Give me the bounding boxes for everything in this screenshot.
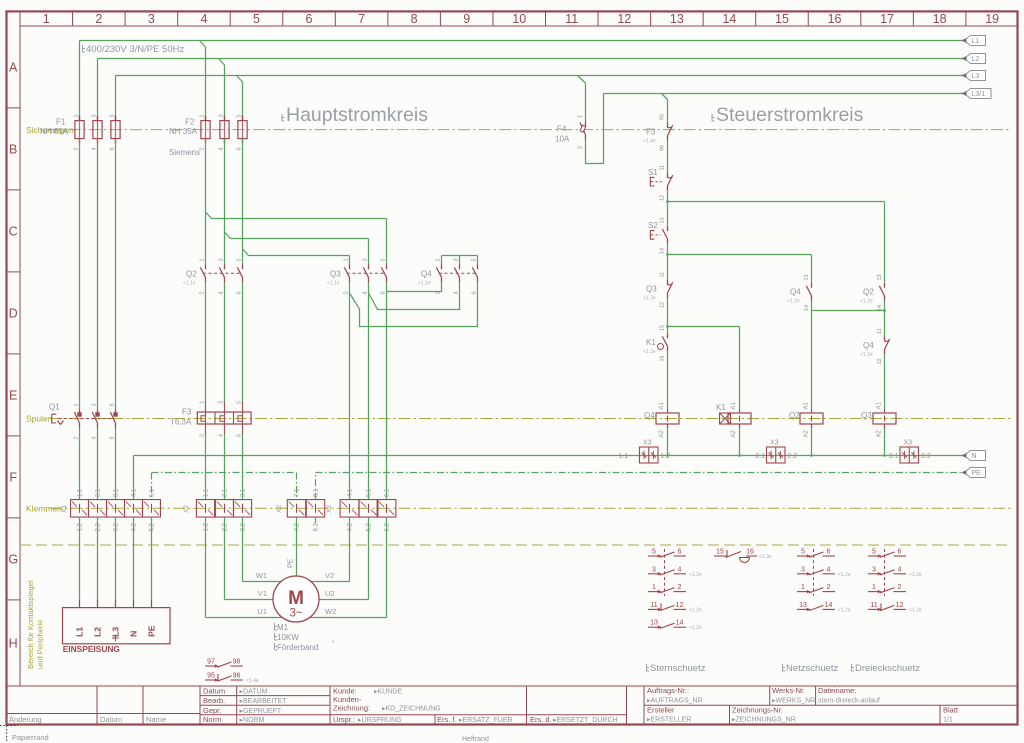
title block lines (7, 686, 1018, 724)
svg-text:A2: A2 (804, 429, 810, 437)
svg-text:15: 15 (775, 12, 789, 26)
svg-text:6: 6 (237, 434, 243, 437)
svg-text:5.2: 5.2 (367, 522, 373, 531)
wire Q1.2 to X1 (97, 428, 99, 500)
wire Q2 coil to N (810, 428, 813, 457)
svg-text:5: 5 (237, 401, 243, 404)
svg-text:15: 15 (660, 325, 666, 331)
contact mirror F3 95-96 (205, 673, 259, 685)
pin numbers F1 (74, 114, 116, 150)
pin numbers Q2 (200, 258, 243, 294)
svg-text:Ers. d.: Ers. d. (530, 715, 552, 724)
wire F2.2 to Q2 (224, 139, 226, 265)
svg-text:<1.3e: <1.3e (643, 349, 656, 355)
wire F4 to L3/1 (586, 94, 604, 164)
svg-text:stern-dreieck-anlauf: stern-dreieck-anlauf (818, 697, 880, 704)
contact Q2 aux 13-14 (879, 283, 884, 301)
flag L1 (961, 36, 986, 46)
svg-text:3: 3 (801, 566, 805, 573)
svg-text:11: 11 (877, 328, 883, 334)
label coil K1 (716, 403, 726, 412)
svg-text:3~: 3~ (289, 608, 302, 620)
svg-text:2.2: 2.2 (223, 522, 229, 531)
wire K1 coil to N (738, 428, 741, 457)
wire Q1.3 to X1 (115, 428, 117, 500)
svg-text:PE: PE (972, 470, 982, 477)
terminal strip X2 PE 7-8 (287, 500, 324, 518)
svg-text:2: 2 (95, 12, 102, 26)
svg-text:97: 97 (207, 659, 215, 666)
wire PE to motor (296, 517, 298, 576)
svg-text:4.1: 4.1 (132, 488, 138, 497)
column number strip (20, 11, 1018, 26)
pin numbers F4 (578, 115, 584, 149)
svg-text:6: 6 (110, 436, 116, 439)
svg-text:6: 6 (110, 147, 116, 150)
svg-text:F2: F2 (185, 118, 195, 127)
svg-text:4: 4 (92, 436, 98, 439)
svg-text:5: 5 (381, 258, 387, 261)
label Q1 (49, 403, 60, 412)
contact F3 95-96 (668, 123, 673, 141)
node S2 branch (666, 253, 669, 256)
svg-text:Zeichnungs-Nr.: Zeichnungs-Nr. (732, 705, 783, 714)
label Q2 (183, 269, 197, 286)
svg-text:1/1: 1/1 (943, 717, 953, 724)
svg-text:Zeichnung:: Zeichnung: (333, 704, 370, 713)
svg-text:19: 19 (985, 12, 999, 26)
coil K1 timer (720, 409, 752, 428)
contact mirror F3 97-98 (205, 659, 243, 668)
svg-text:5: 5 (253, 12, 260, 26)
svg-text:Ers. f.: Ers. f. (437, 715, 457, 724)
terminal X3:1 (640, 447, 659, 463)
svg-text:*: * (332, 641, 335, 647)
svg-text:2.2: 2.2 (96, 522, 102, 531)
terminal X3:3 (900, 447, 919, 463)
svg-text:Werks-Nr.: Werks-Nr. (772, 686, 805, 695)
pin numbers F3 aux (660, 114, 666, 151)
svg-text:3: 3 (219, 401, 225, 404)
svg-text:14: 14 (660, 248, 666, 254)
pin numbers S1 (660, 165, 666, 201)
contact Q3 aux 11-12 (668, 280, 673, 298)
svg-text:11: 11 (870, 602, 877, 609)
wire to Q4 aux nc (884, 311, 886, 337)
wire L2 feeder drop (97, 59, 99, 121)
fuse F1 pole 2 (93, 116, 102, 144)
wire Q3 aux to K1 contact (667, 298, 669, 334)
svg-text:6: 6 (237, 291, 243, 294)
svg-text:7.2: 7.2 (295, 522, 301, 531)
pin numbers Q3 aux (660, 272, 666, 308)
title block texts (9, 686, 959, 724)
svg-text:Q4: Q4 (421, 269, 432, 278)
svg-text:11: 11 (650, 602, 657, 609)
svg-text:2.1: 2.1 (96, 488, 102, 497)
svg-text:3: 3 (872, 566, 876, 573)
svg-text:3: 3 (148, 12, 155, 26)
pins coil K1 (731, 401, 737, 437)
svg-text:X3: X3 (643, 440, 652, 447)
svg-text:Ersteller: Ersteller (647, 705, 675, 714)
svg-text:<1.2e: <1.2e (689, 625, 702, 631)
pin numbers Q4 aux no (804, 274, 810, 311)
svg-text:1: 1 (74, 114, 80, 117)
label Bereich fuer Kontaktspiegel (26, 580, 45, 669)
svg-text:S1: S1 (648, 168, 658, 177)
svg-text:4.2: 4.2 (348, 522, 354, 531)
labels X2 terminals 7-8 (276, 488, 333, 532)
svg-text:Heftrand: Heftrand (462, 736, 489, 743)
svg-text:<1.1e: <1.1e (418, 281, 431, 287)
pin numbers F2 (200, 114, 243, 150)
label F3 aux (643, 128, 656, 145)
wire branch to Q2 aux (668, 202, 885, 283)
svg-text:Steuerstromkreis: Steuerstromkreis (716, 104, 864, 126)
svg-text:4.2: 4.2 (132, 522, 138, 531)
svg-text:M1: M1 (277, 623, 289, 632)
svg-text:Änderung: Änderung (9, 715, 42, 724)
svg-text:4: 4 (363, 291, 369, 294)
wire Q4 star bridge (442, 256, 478, 265)
wire bus L1 (80, 40, 965, 42)
svg-text:3: 3 (454, 258, 460, 261)
svg-text:13: 13 (660, 217, 666, 223)
svg-text:<1.2e: <1.2e (838, 607, 851, 613)
contact mirror Sternschuetz Q4 (648, 549, 702, 632)
svg-text:F1: F1 (56, 118, 66, 127)
wire X2.1 to motor U1 (206, 517, 282, 617)
svg-text:L1: L1 (972, 38, 980, 45)
fuse F2 pole 3 (238, 116, 247, 144)
wire F2.3 to Q2 (242, 139, 244, 265)
switch-disconnector Q1 (52, 410, 118, 428)
label K1 aux (643, 338, 656, 355)
svg-text:X2: X2 (276, 505, 283, 513)
svg-text:7.1: 7.1 (295, 488, 301, 497)
svg-text:1: 1 (43, 12, 50, 26)
svg-text:14: 14 (722, 12, 736, 26)
contact mirror Netzschuetz Q2 (797, 549, 851, 614)
contact Q4 aux 13-14 (806, 283, 811, 301)
svg-text:4: 4 (827, 566, 831, 573)
labels X3:1 (618, 440, 670, 461)
svg-text:5: 5 (237, 258, 243, 261)
wire X1.4 to EINSPEISUNG (133, 517, 135, 608)
wire Q3.2-Q4.2 delta link (369, 282, 460, 309)
wire Q2.2 to F3 (224, 282, 226, 401)
pin numbers Q4 (436, 258, 478, 294)
svg-text:6: 6 (381, 291, 387, 294)
flag L2 (961, 54, 986, 64)
svg-text:95: 95 (207, 673, 215, 680)
svg-text:13: 13 (650, 620, 658, 627)
wire tap L2 to Q3 pole2 (225, 232, 369, 264)
heading Hauptstromkreis (286, 104, 428, 126)
wire PE rail (152, 473, 965, 500)
svg-text:4: 4 (678, 566, 682, 573)
labels EINSPEISUNG conductors (75, 625, 157, 637)
svg-text:▸AUFTRAGS_NR: ▸AUFTRAGS_NR (647, 697, 703, 704)
mark Heftrand (462, 736, 489, 743)
svg-text:W1: W1 (256, 571, 267, 580)
label Sicherungen (26, 125, 74, 135)
svg-text:2: 2 (200, 291, 206, 294)
svg-text:Datum: Datum (100, 715, 122, 724)
svg-text:15: 15 (716, 549, 724, 556)
wire bus L3/1 (604, 93, 965, 95)
svg-text:A2: A2 (731, 429, 737, 437)
svg-text:Auftrags-Nr.:: Auftrags-Nr.: (647, 686, 689, 695)
svg-text:2: 2 (344, 291, 350, 294)
svg-text:▸ERSATZ_FUER: ▸ERSATZ_FUER (459, 717, 513, 724)
wire X2.4 to motor V2 (310, 517, 349, 581)
svg-text:3.1: 3.1 (889, 453, 899, 460)
svg-text:95: 95 (660, 114, 666, 120)
svg-text:<1.1e: <1.1e (327, 281, 340, 287)
svg-text:3.2: 3.2 (921, 453, 931, 460)
pin numbers F3 (200, 401, 243, 437)
svg-text:96: 96 (233, 673, 241, 680)
svg-text:11: 11 (660, 272, 666, 278)
svg-text:4: 4 (454, 291, 460, 294)
svg-text:K1: K1 (646, 338, 656, 347)
svg-text:3: 3 (652, 566, 656, 573)
wire X1.2 to EINSPEISUNG (97, 517, 99, 608)
wire tap L1 to Q3 pole3 (206, 212, 387, 264)
pin numbers Q2 aux (877, 274, 883, 311)
svg-text:Datum: Datum (203, 687, 225, 696)
svg-text:1: 1 (872, 584, 876, 591)
wire tap L3 to Q3 pole1 (243, 249, 350, 264)
svg-text:NH 63A: NH 63A (40, 127, 69, 136)
coil Q4 (656, 409, 679, 428)
overload relay F3 (197, 401, 251, 434)
wire L3 feeder drop (115, 76, 117, 121)
contact mirror Dreieckschuetz Q3 (868, 549, 922, 614)
wire Q2.3 to F3 (242, 282, 244, 401)
svg-text:1: 1 (344, 258, 350, 261)
wire Q3 coil to N (883, 428, 886, 457)
svg-text:4: 4 (898, 566, 902, 573)
svg-text:Urspr.:: Urspr.: (333, 715, 355, 724)
label Q4 (418, 269, 432, 286)
wire X2.5 to motor U2 (319, 517, 369, 599)
svg-text:X2: X2 (326, 505, 333, 513)
wire branch to K1 coil (668, 327, 740, 410)
svg-text:<1.2e: <1.2e (860, 299, 873, 305)
pin numbers Q3 (344, 258, 387, 294)
label EINSPEISUNG (63, 635, 120, 655)
wire X1.1 to EINSPEISUNG (79, 517, 81, 608)
label Q2 aux (860, 288, 874, 305)
svg-text:Blatt: Blatt (943, 705, 959, 714)
svg-text:3: 3 (219, 258, 225, 261)
wire bus tap to F2.2 (219, 59, 225, 121)
node S1 branch (666, 200, 669, 203)
wire Q3.3-Q4.1 delta link (387, 282, 442, 291)
svg-text:L1: L1 (75, 627, 85, 637)
wire F2.1 to Q2 (205, 139, 207, 265)
svg-text:T6,3A: T6,3A (170, 418, 192, 427)
label Spulen (26, 414, 53, 424)
svg-text:Q4: Q4 (644, 411, 655, 420)
row letter strip (7, 26, 21, 686)
svg-text:7: 7 (358, 12, 365, 26)
svg-text:9: 9 (463, 12, 470, 26)
svg-text:▸KUNDE: ▸KUNDE (374, 689, 402, 696)
svg-text:und Peripherie: und Peripherie (36, 620, 45, 669)
svg-text:H: H (9, 636, 18, 650)
svg-text:<1.2e: <1.2e (909, 607, 922, 613)
separator Kontaktspiegel area (20, 544, 1010, 546)
svg-text:12: 12 (896, 602, 904, 609)
wire bus tap to F2.3 (237, 76, 243, 121)
node K1 coil branch (666, 325, 669, 328)
wire N rail (134, 456, 965, 500)
svg-text:Netzschuetz: Netzschuetz (786, 663, 839, 674)
pins coil Q3 (877, 401, 883, 437)
wire F3.1 to X2 (205, 434, 207, 500)
svg-text:12: 12 (617, 12, 631, 26)
supply box EINSPEISUNG (63, 608, 171, 644)
svg-text:5: 5 (652, 549, 656, 556)
label F2 (169, 118, 200, 157)
svg-text:Q2: Q2 (186, 269, 197, 278)
net label 400/230V (86, 44, 184, 55)
label Dreieckschuetz (855, 663, 920, 674)
svg-text:PE: PE (147, 625, 157, 637)
wire F3.3 to X2 (242, 434, 244, 500)
svg-text:N: N (129, 631, 139, 637)
svg-text:2: 2 (200, 434, 206, 437)
svg-text:▸ERSETZT_DURCH: ▸ERSETZT_DURCH (553, 717, 618, 724)
svg-text:6.1: 6.1 (385, 488, 391, 497)
svg-text:1.1: 1.1 (204, 488, 210, 497)
wire bus L3 (116, 75, 965, 77)
svg-text:11: 11 (565, 12, 578, 26)
svg-text:2: 2 (578, 146, 584, 149)
labels motor terminals (256, 571, 337, 616)
svg-text:13: 13 (670, 12, 684, 26)
fuse switch F4 (580, 122, 586, 140)
wire Q4 coil to N (666, 428, 669, 457)
svg-text:10KW: 10KW (277, 633, 299, 642)
svg-text:5: 5 (872, 549, 876, 556)
svg-text:▸ZEICHNUNGS_NR: ▸ZEICHNUNGS_NR (732, 717, 796, 724)
svg-text:1: 1 (200, 114, 206, 117)
contact mirror K1 timer (714, 549, 772, 563)
svg-text:Bereich für Kontaktspiegel: Bereich für Kontaktspiegel (26, 580, 35, 669)
svg-text:L3/1: L3/1 (972, 91, 986, 98)
wire Q2.1 to F3 (205, 282, 207, 401)
svg-text:<1.4e: <1.4e (643, 139, 656, 145)
svg-text:▸NORM: ▸NORM (240, 717, 265, 724)
svg-text:1: 1 (74, 403, 80, 406)
svg-text:G: G (8, 552, 18, 566)
svg-text:6: 6 (306, 12, 313, 26)
label Q4 aux no (787, 288, 801, 305)
svg-text:U2: U2 (325, 589, 335, 598)
pushbutton S2 (650, 226, 667, 244)
svg-text:Q4: Q4 (790, 288, 801, 297)
svg-text:Q4: Q4 (863, 341, 874, 350)
pin numbers K1 aux (660, 325, 666, 362)
svg-text:F: F (9, 470, 17, 484)
svg-text:3.2: 3.2 (241, 522, 247, 531)
svg-text:B: B (9, 142, 17, 156)
contactor Q3 main contacts (344, 264, 386, 282)
svg-text:Sternschuetz: Sternschuetz (650, 663, 706, 674)
svg-text:1: 1 (436, 258, 442, 261)
svg-text:2: 2 (678, 584, 682, 591)
svg-text:L3: L3 (972, 73, 980, 80)
svg-text:<1.2e: <1.2e (689, 607, 702, 613)
svg-text:<1.2e: <1.2e (689, 572, 702, 578)
flag PE (961, 468, 986, 478)
svg-text:6: 6 (678, 549, 682, 556)
svg-text:EINSPEISUNG: EINSPEISUNG (63, 644, 120, 654)
svg-text:3.1: 3.1 (241, 488, 247, 497)
label coil Q2 (789, 411, 800, 420)
svg-text:A1: A1 (804, 401, 810, 409)
terminal strip X2 motor 1-3 (196, 500, 251, 518)
svg-text:<1.3e: <1.3e (759, 554, 772, 560)
svg-text:<1.3e: <1.3e (643, 296, 656, 302)
svg-text:Bearb.: Bearb. (203, 696, 225, 705)
svg-text:U1: U1 (257, 607, 267, 616)
svg-text:Q3: Q3 (861, 411, 872, 420)
svg-text:Gepr.: Gepr. (203, 706, 221, 715)
motor M1 circle (273, 576, 319, 622)
svg-text:18: 18 (933, 12, 947, 26)
svg-text:Förderband: Förderband (277, 643, 318, 652)
svg-text:M: M (288, 588, 304, 609)
wire Q3.2 to X2 terminal (368, 282, 370, 499)
svg-text:3: 3 (92, 403, 98, 406)
svg-text:▸KD_ZEICHNUNG: ▸KD_ZEICHNUNG (382, 706, 441, 713)
label S1 (648, 168, 658, 177)
svg-text:X3: X3 (770, 440, 779, 447)
wire K1 contact to Q4 coil (667, 351, 669, 409)
svg-text:5.1: 5.1 (150, 488, 156, 497)
svg-text:14: 14 (676, 620, 684, 627)
wire L3/1 tap to control (662, 94, 668, 123)
label S2 (648, 221, 658, 230)
wire X1.5 to EINSPEISUNG (151, 517, 153, 608)
svg-text:2: 2 (898, 584, 902, 591)
svg-text:6.2: 6.2 (385, 522, 391, 531)
svg-text:4: 4 (92, 147, 98, 150)
svg-text:1.2: 1.2 (204, 522, 210, 531)
svg-text:13: 13 (804, 274, 810, 280)
svg-text:F3: F3 (646, 128, 656, 137)
wire Q3.1 to X2 terminal (349, 282, 351, 499)
svg-text:2: 2 (74, 147, 80, 150)
fuse F2 pole 1 (201, 116, 210, 144)
svg-text:1: 1 (801, 584, 805, 591)
svg-text:Name: Name (146, 715, 166, 724)
label Q3 aux (643, 285, 657, 302)
svg-text:▸BEARBEITET: ▸BEARBEITET (240, 698, 288, 705)
text anchor marks (83, 45, 855, 671)
wire Q1.1 to X1 (79, 428, 81, 500)
svg-text:Hauptstromkreis: Hauptstromkreis (286, 104, 428, 126)
contactor Q4 main contacts (436, 264, 477, 282)
wire to Q2 coil (811, 311, 813, 410)
svg-text:<1.2e: <1.2e (838, 572, 851, 578)
